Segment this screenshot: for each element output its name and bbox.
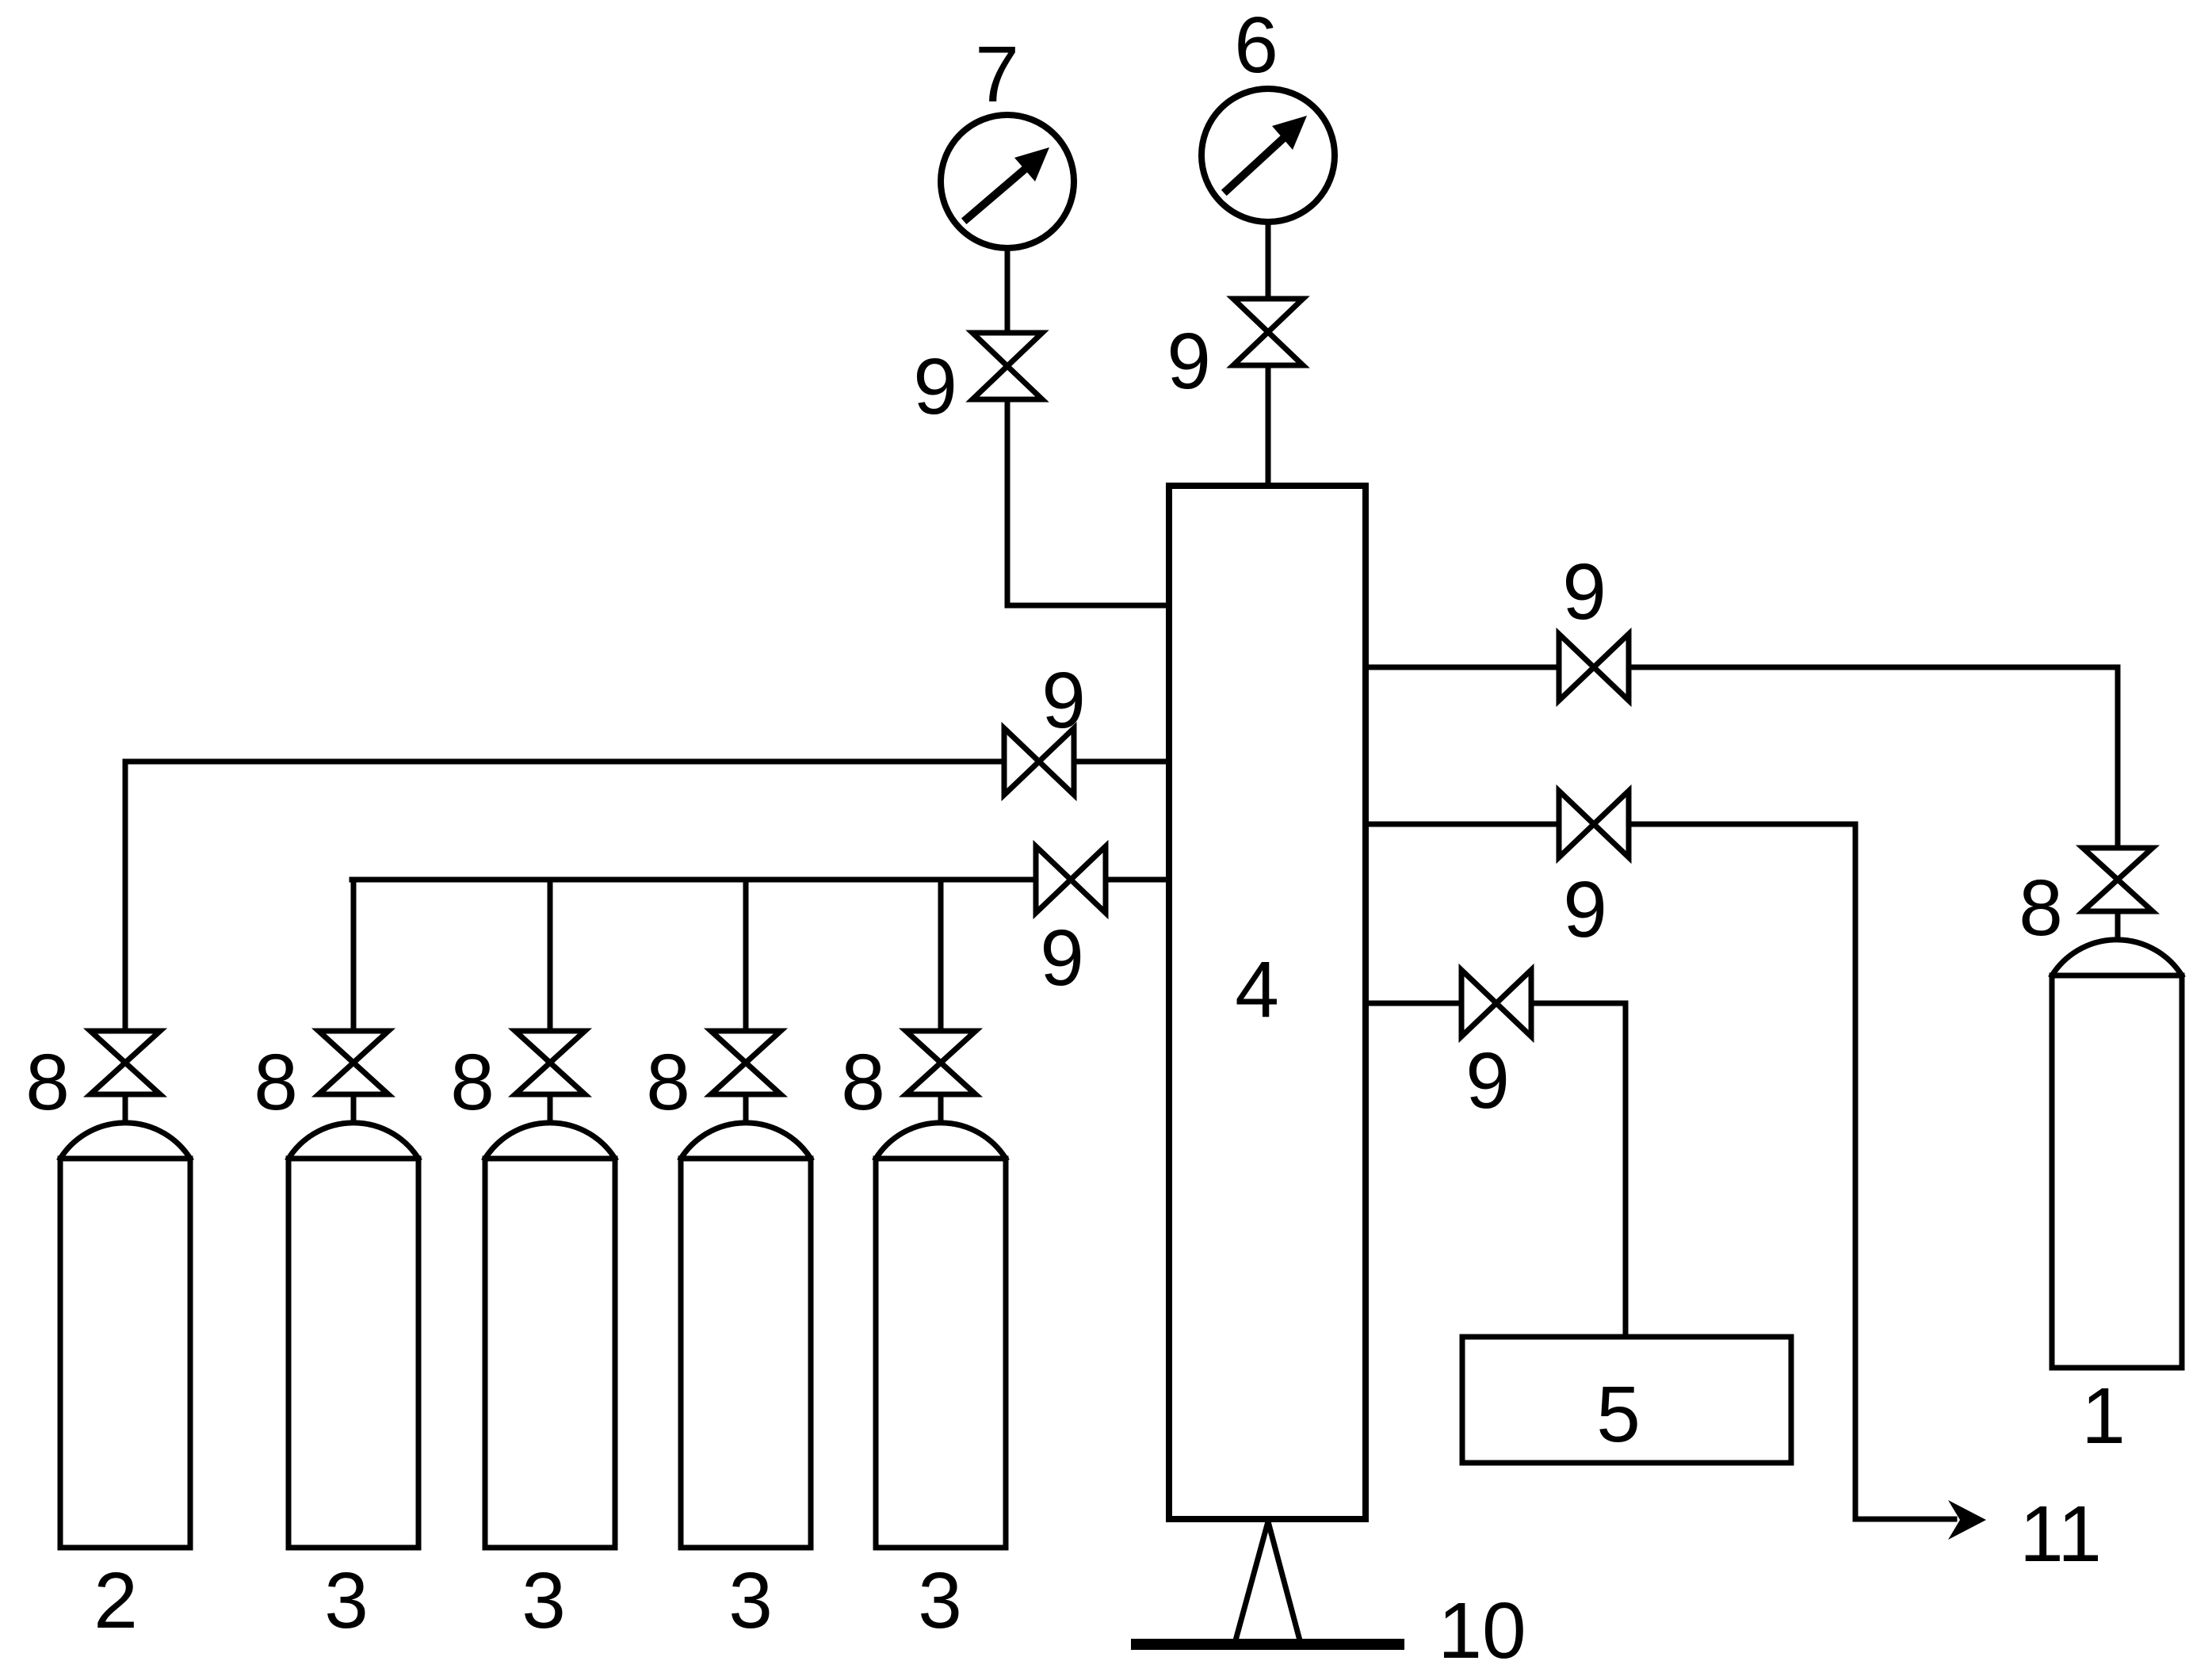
cylinder 3b body (485, 1159, 615, 1548)
gauge 6 needle (1227, 137, 1285, 190)
svg-text:4: 4 (1235, 945, 1279, 1034)
cylinder 3d body (876, 1159, 1006, 1548)
stem cylinder 3d (938, 1094, 944, 1121)
stem cylinder 3b (548, 1094, 553, 1121)
svg-text:9: 9 (1040, 914, 1084, 1002)
wire pipe 2 to outlet (1629, 824, 1954, 1519)
valve 9 below gauge 7 (972, 333, 1042, 399)
box 5 (1462, 1337, 1791, 1463)
svg-text:8: 8 (25, 1038, 70, 1127)
svg-text:8: 8 (646, 1038, 690, 1127)
cylinder 2 dome (60, 1123, 190, 1159)
cylinder 1 dome (2052, 940, 2182, 975)
cylinder 3c dome (681, 1123, 811, 1159)
pipe 3 wire column to valve (1366, 1001, 1461, 1006)
riser wire cylinder 3a (351, 880, 357, 1031)
valve 8 on cylinder 1 (2083, 848, 2153, 911)
cylinder 3c body (681, 1159, 811, 1548)
svg-text:9: 9 (1167, 317, 1211, 406)
pressure gauge 7 (941, 115, 1074, 248)
stem cylinder 3c (743, 1094, 749, 1121)
svg-text:8: 8 (841, 1038, 885, 1127)
svg-text:8: 8 (450, 1038, 495, 1127)
valve 9 on pipe 2 (1559, 791, 1629, 857)
svg-text:3: 3 (728, 1556, 773, 1645)
svg-text:3: 3 (324, 1556, 369, 1645)
outlet arrowhead 11 (1948, 1500, 1986, 1540)
valve 9 on cylinder 2 line (1004, 728, 1074, 795)
stem cylinder 3a (351, 1094, 357, 1121)
svg-text:9: 9 (1563, 865, 1607, 954)
pipe 2 wire column to valve (1366, 822, 1559, 827)
pressure gauge 6 (1202, 89, 1335, 222)
svg-text:1: 1 (2081, 1372, 2126, 1460)
svg-text:3: 3 (918, 1556, 962, 1645)
wire pipe 3 to box 5 (1531, 1003, 1626, 1337)
svg-text:6: 6 (1234, 1, 1278, 90)
cylinder 3b dome (485, 1123, 615, 1159)
wire valve to column (1074, 759, 1169, 765)
ground line (1137, 1639, 1399, 1650)
cylinder 3a body (288, 1159, 418, 1548)
riser wire cylinder 3c (743, 880, 749, 1031)
svg-text:10: 10 (1438, 1586, 1526, 1675)
svg-text:11: 11 (2019, 1490, 2102, 1579)
valve 8 on cylinder 3d (906, 1031, 976, 1094)
cylinder 3d dome (876, 1123, 1006, 1159)
svg-text:2: 2 (94, 1556, 138, 1645)
valve 8 on cylinder 3b (515, 1031, 585, 1094)
wire cylinder 2 to valve 9 (125, 762, 1004, 1031)
reaction column 4 (1169, 486, 1366, 1519)
svg-text:7: 7 (975, 30, 1019, 119)
svg-text:9: 9 (1041, 656, 1086, 745)
wire valve to column top (1266, 365, 1271, 486)
valve 8 on cylinder 3c (711, 1031, 781, 1094)
support stand 10 left leg (1236, 1521, 1268, 1640)
valve 9 below gauge 6 (1233, 299, 1303, 365)
support stand 10 right leg (1268, 1521, 1300, 1640)
riser wire cylinder 3b (548, 880, 553, 1031)
svg-text:5: 5 (1596, 1370, 1641, 1459)
cylinder 3a dome (288, 1123, 418, 1159)
stem cylinder 1 (2115, 911, 2121, 938)
cylinder 2 body (60, 1159, 190, 1548)
svg-text:9: 9 (1562, 548, 1606, 636)
wire valve to cylinder 1 (1629, 667, 2118, 848)
valve 9 on manifold (1036, 846, 1106, 913)
svg-text:3: 3 (521, 1556, 566, 1645)
wire manifold valve to column (1106, 877, 1169, 883)
manifold wire (352, 877, 1036, 883)
gauge 7 needle (967, 167, 1027, 219)
valve 8 on cylinder 2 (90, 1031, 160, 1094)
pipe 1 wire column to valve (1366, 665, 1559, 670)
valve 9 on pipe 1 (1559, 634, 1629, 701)
svg-text:8: 8 (2019, 864, 2063, 953)
wire gauge 7 to valve (1005, 248, 1010, 333)
cylinder 1 body (2052, 975, 2182, 1368)
riser wire cylinder 3d (938, 880, 944, 1031)
wire gauge 6 to valve (1266, 222, 1271, 299)
gauge 6 needle arrowhead (1272, 116, 1307, 150)
svg-text:8: 8 (254, 1038, 298, 1127)
svg-text:9: 9 (1465, 1037, 1510, 1125)
valve 9 on pipe 3 (1461, 970, 1531, 1037)
valve 8 on cylinder 3a (319, 1031, 388, 1094)
svg-text:9: 9 (913, 342, 957, 431)
wire valve to column left side (1007, 399, 1169, 605)
stem cylinder 2 (123, 1094, 128, 1121)
gauge 7 needle arrowhead (1014, 147, 1049, 181)
